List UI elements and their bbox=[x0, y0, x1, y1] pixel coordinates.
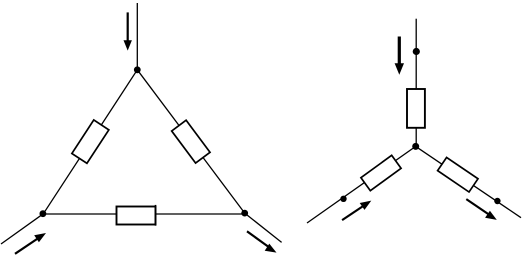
resistor right side of delta bbox=[172, 120, 210, 163]
wire right leg of wye bbox=[416, 146, 521, 217]
current arrow at wye right leg bbox=[466, 198, 497, 220]
current arrow at wye left leg bbox=[342, 201, 372, 221]
resistor bottom side of delta bbox=[117, 207, 156, 225]
current arrow into apex bbox=[124, 12, 132, 50]
node bottom-left of delta bbox=[40, 210, 47, 217]
wire bottom-left external lead bbox=[1, 214, 43, 244]
node on right leg of wye bbox=[494, 198, 500, 204]
wye network (right figure) bbox=[307, 19, 521, 223]
wire triangle right side bbox=[137, 70, 244, 213]
resistor left branch of wye bbox=[361, 155, 401, 190]
node bottom-right of delta bbox=[241, 210, 248, 217]
wire triangle bottom side bbox=[43, 213, 244, 215]
node on top lead of wye bbox=[413, 48, 420, 55]
current arrow at bottom-right lead bbox=[246, 230, 276, 252]
tick on resistor right edge bbox=[155, 205, 157, 226]
bold current arrow into wye top bbox=[395, 37, 404, 75]
resistor top branch of wye bbox=[407, 89, 425, 128]
resistor right branch of wye bbox=[438, 157, 478, 192]
resistor left side of delta bbox=[72, 120, 109, 163]
wire top lead into apex bbox=[136, 3, 138, 70]
current arrow at bottom-left lead bbox=[14, 233, 46, 255]
wire triangle left side bbox=[43, 70, 137, 214]
delta network (left figure) bbox=[1, 3, 282, 244]
wire top lead of wye bbox=[415, 19, 417, 147]
node center of wye bbox=[412, 143, 419, 150]
node apex of delta bbox=[134, 66, 141, 73]
wire bottom-right external lead bbox=[245, 213, 282, 242]
node on left leg of wye bbox=[340, 196, 346, 202]
wire left leg of wye bbox=[307, 146, 416, 223]
